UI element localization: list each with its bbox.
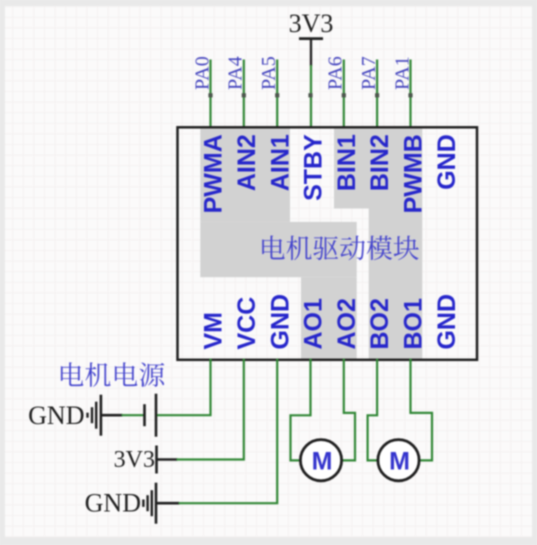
svg-text:VM: VM — [200, 312, 228, 350]
svg-text:AO1: AO1 — [300, 298, 328, 350]
svg-text:3V3: 3V3 — [289, 9, 334, 38]
label 电机电源 — [61, 362, 164, 387]
wire net PA7 — [376, 60, 378, 129]
svg-text:GND: GND — [433, 294, 461, 350]
wire 3V3 to STBY — [310, 65, 312, 128]
wire battery — [101, 414, 123, 417]
svg-text:GND: GND — [28, 401, 84, 430]
svg-text:AIN1: AIN1 — [266, 134, 294, 191]
pin end tick — [342, 93, 346, 97]
svg-text:BO2: BO2 — [366, 298, 394, 349]
svg-text:BIN2: BIN2 — [366, 134, 394, 191]
wire net PA0 — [209, 60, 211, 129]
svg-text:AIN2: AIN2 — [233, 134, 261, 191]
motor M2 — [378, 440, 419, 481]
svg-text:AO2: AO2 — [333, 298, 361, 349]
wire battery+ to VM — [157, 359, 211, 415]
svg-text:BO1: BO1 — [400, 298, 428, 350]
svg-text:M: M — [389, 448, 410, 476]
pin end tick — [208, 93, 212, 97]
pin end tick — [308, 93, 312, 97]
svg-text:PWMA: PWMA — [200, 134, 228, 213]
svg-text:PA5: PA5 — [258, 56, 280, 90]
pin end tick — [408, 93, 412, 97]
svg-text:PA0: PA0 — [191, 56, 213, 90]
pin end tick — [375, 93, 379, 97]
wire net PA4 — [243, 60, 245, 129]
svg-text:PA1: PA1 — [391, 56, 413, 90]
wire AO1 to motor M1 — [291, 359, 311, 461]
svg-text:M: M — [312, 448, 333, 476]
chip U1 motor driver module body — [178, 127, 478, 359]
svg-text:PWMB: PWMB — [400, 134, 428, 213]
wire GND2 to GND pin — [156, 502, 180, 505]
svg-text:PA6: PA6 — [325, 56, 347, 90]
svg-text:GND: GND — [85, 489, 141, 518]
wire net PA1 — [409, 60, 411, 129]
svg-text:PA7: PA7 — [358, 56, 380, 90]
svg-text:PA4: PA4 — [225, 56, 247, 90]
motor M1 — [300, 440, 341, 481]
svg-text:STBY: STBY — [300, 134, 328, 201]
wire BO2 to motor M2 — [368, 359, 379, 461]
wire net PA6 — [343, 60, 345, 129]
svg-text:BIN1: BIN1 — [333, 134, 361, 191]
pin end tick — [242, 93, 246, 97]
battery BT1 电机电源 — [143, 404, 146, 426]
wire BO1 to motor M2 — [411, 359, 433, 461]
svg-text:VCC: VCC — [233, 297, 261, 350]
grey fill regions of module — [200, 129, 290, 222]
value label 电机驱动模块 — [262, 235, 419, 260]
svg-text:GND: GND — [266, 294, 294, 350]
pin end tick — [275, 93, 279, 97]
svg-text:GND: GND — [433, 134, 461, 190]
svg-text:3V3: 3V3 — [114, 447, 155, 473]
wire net PA5 — [276, 60, 278, 129]
wire 3V3 to VCC — [157, 458, 178, 461]
wire AO2 to motor M1 — [341, 359, 356, 461]
